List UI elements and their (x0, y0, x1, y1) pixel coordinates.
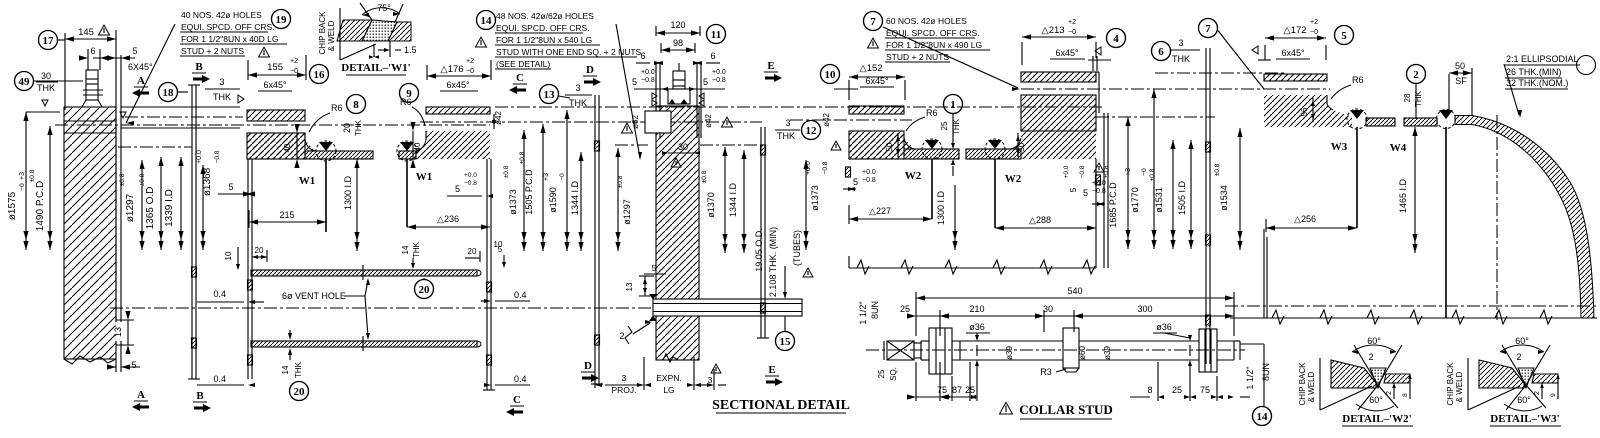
svg-text:3: 3 (575, 83, 580, 93)
svg-text:6: 6 (1158, 46, 1164, 58)
svg-text:120: 120 (670, 20, 685, 30)
svg-text:12: 12 (806, 125, 818, 137)
svg-text:40: 40 (413, 142, 422, 151)
svg-text:3: 3 (1178, 38, 1183, 48)
svg-text:−0.8: −0.8 (641, 77, 655, 84)
svg-text:210: 210 (969, 304, 984, 314)
svg-text:THK: THK (354, 119, 363, 136)
svg-text:6: 6 (710, 51, 715, 61)
svg-text:14: 14 (281, 365, 290, 374)
svg-text:LG: LG (663, 385, 674, 395)
svg-text:60°: 60° (1369, 395, 1383, 405)
svg-text:△176: △176 (440, 64, 463, 75)
svg-text:5: 5 (132, 46, 137, 56)
svg-text:0.4: 0.4 (514, 290, 527, 300)
svg-text:13: 13 (544, 89, 556, 101)
svg-text:5: 5 (1069, 187, 1078, 192)
svg-text:△227: △227 (869, 206, 891, 216)
svg-text:EQUI. SPCD. OFF CRS.: EQUI. SPCD. OFF CRS. (886, 28, 980, 38)
svg-text:2: 2 (1386, 391, 1393, 395)
svg-text:5: 5 (632, 77, 637, 87)
svg-text:75: 75 (937, 385, 947, 395)
svg-text:14: 14 (1257, 411, 1269, 423)
svg-text:9: 9 (1550, 393, 1557, 397)
svg-text:5: 5 (455, 184, 460, 194)
svg-text:W1: W1 (416, 171, 433, 183)
svg-text:1: 1 (950, 99, 956, 111)
svg-text:98: 98 (673, 38, 683, 48)
svg-text:20: 20 (342, 123, 352, 133)
svg-text:30: 30 (41, 71, 51, 81)
svg-text:5: 5 (131, 360, 136, 370)
svg-text:ø62: ø62 (631, 115, 640, 129)
svg-text:W1: W1 (299, 175, 316, 187)
svg-text:+2: +2 (466, 58, 474, 65)
svg-text:−0: −0 (1141, 168, 1148, 176)
svg-text:16: 16 (314, 69, 326, 81)
svg-text:6X45°: 6X45° (128, 62, 153, 72)
svg-text:EQUI. SPCD. OFF CRS.: EQUI. SPCD. OFF CRS. (181, 22, 275, 32)
svg-text:26 THK.(MIN): 26 THK.(MIN) (1506, 67, 1561, 77)
svg-text:A: A (137, 75, 145, 87)
svg-text:THK: THK (777, 131, 795, 141)
svg-text:1.5: 1.5 (404, 45, 417, 55)
svg-text:4: 4 (1113, 33, 1119, 45)
svg-text:+2: +2 (1068, 19, 1076, 26)
svg-text:A: A (137, 389, 145, 401)
svg-text:B: B (196, 390, 204, 402)
svg-text:△288: △288 (1029, 215, 1051, 225)
svg-text:1465 I.D: 1465 I.D (1398, 178, 1408, 213)
svg-text:1505 P.C.D: 1505 P.C.D (524, 169, 534, 215)
svg-text:1339 I.D: 1339 I.D (164, 189, 175, 227)
svg-text:50: 50 (1455, 61, 1465, 71)
svg-text:2: 2 (1516, 352, 1521, 362)
svg-text:8: 8 (1402, 393, 1409, 397)
svg-text:R6: R6 (1352, 75, 1364, 85)
svg-text:6ø VENT HOLE: 6ø VENT HOLE (282, 291, 346, 301)
svg-text:14: 14 (401, 245, 410, 254)
svg-text:CHIP BACK: CHIP BACK (318, 11, 327, 55)
svg-text:−0.8: −0.8 (1092, 188, 1106, 195)
svg-text:ø1575: ø1575 (7, 191, 18, 220)
svg-text:+0.0: +0.0 (1063, 165, 1070, 178)
svg-text:5: 5 (1341, 30, 1347, 42)
svg-text:215: 215 (279, 210, 294, 220)
svg-text:17: 17 (43, 35, 55, 47)
svg-text:D: D (584, 360, 592, 372)
svg-text:B: B (195, 61, 203, 73)
svg-text:6x45°: 6x45° (446, 80, 470, 90)
svg-text:20: 20 (468, 247, 477, 256)
svg-text:FOR 1 1/2"8UN x 40D LG: FOR 1 1/2"8UN x 40D LG (181, 34, 279, 44)
svg-text:EQUI. SPCD. OFF CRS.: EQUI. SPCD. OFF CRS. (496, 23, 590, 33)
svg-text:1344 I.D: 1344 I.D (728, 182, 738, 217)
svg-text:8: 8 (1147, 385, 1152, 395)
svg-text:+2: +2 (1310, 19, 1318, 26)
svg-text:±0.8: ±0.8 (119, 173, 126, 186)
svg-text:2: 2 (1413, 69, 1419, 81)
svg-text:STUD WITH ONE END SQ. + 2 NUTS: STUD WITH ONE END SQ. + 2 NUTS (496, 47, 642, 57)
svg-text:0.4: 0.4 (514, 374, 527, 384)
svg-text:COLLAR STUD: COLLAR STUD (1019, 402, 1113, 417)
svg-text:C: C (513, 394, 521, 406)
svg-text:W2: W2 (905, 170, 922, 182)
svg-text:13: 13 (625, 282, 634, 291)
svg-text:±0.8: ±0.8 (1214, 163, 1221, 176)
svg-text:STUD + 2 NUTS: STUD + 2 NUTS (886, 52, 949, 62)
svg-text:△213: △213 (1041, 25, 1064, 36)
svg-text:40 NOS. 42ø HOLES: 40 NOS. 42ø HOLES (181, 10, 262, 20)
svg-text:5: 5 (703, 77, 708, 87)
svg-text:2:1 ELLIPSODIAL: 2:1 ELLIPSODIAL (1506, 54, 1579, 64)
svg-text:−0.8: −0.8 (822, 161, 829, 174)
svg-text:−0: −0 (1068, 29, 1076, 36)
svg-text:SECTIONAL DETAIL: SECTIONAL DETAIL (712, 398, 850, 413)
svg-text:−0: −0 (19, 183, 26, 191)
svg-text:+0.0: +0.0 (196, 150, 203, 164)
svg-text:60°: 60° (1517, 395, 1531, 405)
svg-text:40: 40 (283, 143, 292, 152)
svg-text:CHIP BACK: CHIP BACK (1446, 362, 1455, 406)
svg-text:−0: −0 (1310, 29, 1318, 36)
svg-text:ø36: ø36 (1156, 322, 1172, 332)
svg-text:W4: W4 (1390, 142, 1407, 154)
svg-text:1685 P.C.D: 1685 P.C.D (1108, 182, 1118, 228)
svg-text:W3: W3 (1331, 141, 1348, 153)
svg-text:7: 7 (1205, 23, 1211, 35)
svg-text:145: 145 (78, 27, 94, 38)
svg-text:ø42: ø42 (822, 113, 831, 127)
svg-text:6x45°: 6x45° (1055, 48, 1079, 58)
svg-text:+0.0: +0.0 (641, 69, 655, 76)
svg-text:C: C (516, 72, 524, 84)
svg-text:2: 2 (619, 331, 624, 341)
svg-text:+2: +2 (290, 58, 298, 65)
svg-text:D: D (586, 64, 594, 76)
svg-text:25: 25 (877, 369, 886, 378)
svg-text:THK: THK (412, 241, 421, 258)
svg-text:DETAIL–'W3': DETAIL–'W3' (1490, 413, 1559, 425)
svg-text:THK: THK (213, 92, 231, 102)
svg-text:1505 I.D: 1505 I.D (1177, 180, 1187, 215)
svg-text:ø1590: ø1590 (548, 187, 558, 213)
svg-text:& WELD: & WELD (327, 20, 336, 51)
svg-text:50: 50 (885, 142, 894, 151)
svg-text:6: 6 (90, 46, 95, 56)
svg-text:20: 20 (255, 246, 264, 255)
svg-text:ø1297: ø1297 (622, 199, 632, 225)
svg-text:2: 2 (1368, 352, 1373, 362)
svg-text:5: 5 (228, 182, 233, 192)
svg-text:10: 10 (224, 251, 233, 260)
svg-text:PROJ.: PROJ. (611, 385, 636, 395)
svg-text:3: 3 (219, 77, 224, 87)
svg-text:8: 8 (353, 99, 359, 111)
svg-text:−0.8: −0.8 (1079, 165, 1086, 178)
svg-text:ø1370: ø1370 (706, 192, 716, 218)
svg-text:R6: R6 (926, 108, 938, 118)
svg-text:2.108 THK. (MIN): 2.108 THK. (MIN) (768, 227, 778, 297)
svg-text:△256: △256 (1294, 214, 1316, 224)
svg-text:60 NOS. 42ø HOLES: 60 NOS. 42ø HOLES (886, 16, 967, 26)
svg-text:±0.8: ±0.8 (1149, 168, 1156, 181)
svg-text:ø1373: ø1373 (810, 185, 820, 211)
svg-text:DETAIL–'W2': DETAIL–'W2' (1342, 413, 1411, 425)
svg-text:540: 540 (1067, 286, 1082, 296)
svg-text:75: 75 (1200, 385, 1210, 395)
svg-text:ø36: ø36 (969, 322, 985, 332)
svg-text:ø39: ø39 (1005, 346, 1014, 360)
svg-text:THK: THK (37, 83, 55, 93)
svg-text:11: 11 (711, 29, 721, 41)
svg-text:155: 155 (267, 62, 283, 73)
svg-text:25: 25 (940, 121, 949, 130)
svg-text:19.05 O.D.: 19.05 O.D. (754, 228, 764, 272)
svg-text:1300 I.D: 1300 I.D (936, 190, 946, 225)
svg-text:8UN: 8UN (1261, 363, 1271, 381)
svg-text:28: 28 (1403, 93, 1412, 102)
svg-text:ø1373: ø1373 (508, 189, 518, 215)
svg-text:SF: SF (1455, 76, 1467, 86)
svg-text:7: 7 (870, 16, 876, 28)
svg-text:1 1/2": 1 1/2" (858, 301, 868, 324)
svg-text:R6: R6 (331, 103, 343, 113)
svg-text:56: 56 (1300, 107, 1309, 116)
svg-text:E: E (767, 60, 774, 72)
svg-text:±0.8: ±0.8 (701, 170, 708, 183)
svg-text:5: 5 (652, 263, 657, 273)
svg-text:1365 O.D: 1365 O.D (145, 187, 156, 230)
svg-text:8UN: 8UN (870, 301, 880, 319)
svg-text:6x45°: 6x45° (1281, 48, 1305, 58)
svg-text:15: 15 (780, 336, 792, 348)
svg-text:ø42: ø42 (704, 114, 713, 128)
svg-text:300: 300 (1137, 304, 1152, 314)
svg-text:±0.8: ±0.8 (503, 165, 510, 178)
svg-text:0.4: 0.4 (213, 289, 226, 299)
svg-text:6: 6 (640, 51, 645, 61)
svg-text:−0.8: −0.8 (214, 150, 221, 163)
svg-text:+0.0: +0.0 (464, 172, 477, 179)
svg-text:+0.0: +0.0 (1092, 180, 1106, 187)
svg-text:0.4: 0.4 (213, 374, 226, 384)
svg-text:1490 P.C.D: 1490 P.C.D (35, 181, 46, 231)
svg-text:−0: −0 (290, 68, 298, 75)
svg-text:25: 25 (900, 304, 910, 314)
svg-text:1300 I.D: 1300 I.D (343, 175, 353, 210)
svg-text:+0.0: +0.0 (862, 169, 876, 176)
svg-text:THK: THK (1172, 54, 1190, 64)
svg-text:R3: R3 (1040, 367, 1052, 377)
svg-text:5: 5 (498, 245, 503, 254)
svg-text:19: 19 (276, 14, 288, 26)
svg-text:W2: W2 (1005, 173, 1022, 185)
svg-text:5: 5 (853, 177, 858, 187)
svg-text:FOR 1 1/2"8UN x 490 LG: FOR 1 1/2"8UN x 490 LG (886, 40, 982, 50)
svg-text:△172: △172 (1283, 25, 1306, 36)
svg-text:(SEE DETAIL): (SEE DETAIL) (496, 59, 550, 69)
svg-text:−0: −0 (559, 173, 566, 181)
svg-text:ø1770: ø1770 (1130, 187, 1140, 213)
svg-text:THK: THK (294, 361, 303, 378)
svg-text:E: E (768, 364, 775, 376)
svg-text:20: 20 (419, 284, 431, 296)
svg-text:CHIP BACK: CHIP BACK (1298, 362, 1307, 406)
svg-text:2: 2 (1534, 391, 1541, 395)
svg-text:ø1534: ø1534 (1219, 185, 1229, 211)
svg-text:ø1531: ø1531 (1154, 187, 1164, 213)
svg-text:EXPN.: EXPN. (656, 373, 682, 383)
svg-text:18: 18 (163, 87, 175, 99)
svg-text:20: 20 (294, 386, 306, 398)
svg-text:32 THK.(NOM.): 32 THK.(NOM.) (1506, 78, 1568, 88)
svg-text:+0.0: +0.0 (712, 69, 726, 76)
svg-text:+3: +3 (543, 173, 550, 181)
svg-text:3: 3 (622, 373, 627, 383)
svg-text:−0: −0 (466, 68, 474, 75)
svg-text:10: 10 (825, 69, 837, 81)
svg-text:STUD + 2 NUTS: STUD + 2 NUTS (181, 46, 244, 56)
svg-text:3: 3 (785, 118, 790, 128)
svg-text:5: 5 (1083, 188, 1088, 198)
svg-text:87: 87 (952, 385, 962, 395)
svg-text:6x45°: 6x45° (865, 76, 889, 86)
svg-text:48 NOS. 42ø/62ø HOLES: 48 NOS. 42ø/62ø HOLES (496, 11, 594, 21)
svg-text:ø60: ø60 (1078, 346, 1087, 360)
svg-text:−0.8: −0.8 (862, 177, 876, 184)
svg-text:30: 30 (678, 142, 688, 152)
svg-text:25: 25 (1172, 385, 1182, 395)
svg-text:1344 I.D: 1344 I.D (570, 180, 580, 215)
svg-text:SQ.: SQ. (889, 367, 898, 381)
svg-text:ø39: ø39 (1103, 346, 1112, 360)
svg-text:1 1/2": 1 1/2" (1245, 366, 1255, 389)
svg-text:+3: +3 (19, 172, 26, 180)
svg-text:THK: THK (1414, 90, 1423, 107)
svg-text:& WELD: & WELD (1455, 371, 1464, 402)
svg-text:49: 49 (19, 76, 31, 88)
svg-text:R6: R6 (400, 97, 412, 107)
svg-text:& WELD: & WELD (1307, 371, 1316, 402)
svg-text:−0.8: −0.8 (712, 77, 726, 84)
svg-text:6x45°: 6x45° (263, 80, 287, 90)
svg-text:△236: △236 (437, 214, 459, 224)
svg-text:13: 13 (113, 327, 123, 337)
svg-text:DETAIL–'W1': DETAIL–'W1' (341, 62, 410, 74)
svg-text:FOR 1 1/2"8UN x 540 LG: FOR 1 1/2"8UN x 540 LG (496, 35, 592, 45)
svg-text:THK: THK (569, 98, 587, 108)
svg-text:△152: △152 (859, 63, 882, 74)
svg-text:±0.8: ±0.8 (519, 151, 526, 164)
svg-text:−0.8: −0.8 (464, 180, 477, 187)
svg-text:14: 14 (481, 15, 493, 27)
svg-text:ø1297: ø1297 (125, 193, 136, 222)
svg-text:±0.8: ±0.8 (29, 169, 36, 182)
svg-text:(TUBES): (TUBES) (792, 230, 802, 266)
